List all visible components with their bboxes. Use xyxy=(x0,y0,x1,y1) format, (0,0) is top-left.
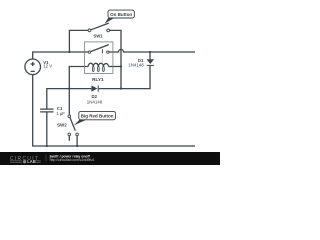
label SW2 xyxy=(57,123,67,128)
wire: C1 branch corner on mid rail xyxy=(47,89,70,110)
label D1 value xyxy=(128,58,144,68)
wire: bottom rail xyxy=(47,145,195,147)
wire: V1 top lead and top-left rail corner xyxy=(33,52,70,59)
footer text xyxy=(49,154,95,162)
wire: mid rail to D2 anode xyxy=(69,88,91,90)
capacitor C1 xyxy=(40,109,53,112)
label D2 value xyxy=(87,94,103,104)
diode D2 xyxy=(91,85,98,91)
svg-text:1N4148: 1N4148 xyxy=(128,62,144,67)
node: coil right tee xyxy=(120,65,122,67)
wire: contact rail out of relay, hop over SW1 branch, right stub xyxy=(109,49,195,52)
switch SW2 xyxy=(68,115,78,136)
label SW1 xyxy=(93,34,103,39)
wire: coil right lead to SW1 branch tee xyxy=(109,66,122,68)
coil arcs xyxy=(88,63,108,66)
wire: D1 top lead xyxy=(149,52,151,59)
diode D1 xyxy=(147,59,154,65)
svg-text:1N4148: 1N4148 xyxy=(87,99,103,104)
svg-text:RLY1: RLY1 xyxy=(92,77,104,82)
relay box xyxy=(85,42,113,74)
footer separator xyxy=(45,155,47,162)
annotation callout: Big Red Button xyxy=(74,111,116,125)
node: V1/SW1/contact junction xyxy=(68,51,70,53)
voltage source V1 xyxy=(25,59,41,75)
contact lever xyxy=(91,45,109,52)
coil crossover loops xyxy=(92,66,94,71)
svg-text:1 µF: 1 µF xyxy=(56,111,65,116)
node: SW2 bottom xyxy=(76,145,78,147)
svg-text:On Button: On Button xyxy=(110,12,132,17)
svg-text:Big Red Button: Big Red Button xyxy=(81,114,114,119)
contact left terminal xyxy=(88,51,90,53)
node: coil left / C1 / SW2 junction xyxy=(68,88,70,90)
wire: SW1 right branch down to coil net xyxy=(110,30,121,88)
actuation arrow xyxy=(101,49,103,52)
label C1 value xyxy=(56,106,65,116)
svg-text:SW2: SW2 xyxy=(57,123,67,128)
svg-text:12 V: 12 V xyxy=(43,64,52,69)
wire: SW2 right throw lead to bottom rail xyxy=(76,136,78,146)
svg-text:http://circuitlab.com/c2xkt9fu: http://circuitlab.com/c2xkt9fu4 xyxy=(50,158,95,162)
wire: SW2 top lead xyxy=(68,89,70,115)
annotation callout: On Button xyxy=(105,10,135,24)
node: C1 bottom xyxy=(46,145,48,147)
node: D1 top tee xyxy=(149,51,151,53)
footer logo CIRCUIT LAB xyxy=(10,156,41,164)
label V1 value xyxy=(43,60,52,69)
svg-text:LAB: LAB xyxy=(27,159,35,164)
label RLY1 xyxy=(92,77,104,82)
wire: contact rail into relay contact xyxy=(69,51,88,53)
wire: SW1 left branch xyxy=(69,30,88,52)
wire: mid rail from D2 cathode to D1 bottom corner xyxy=(99,66,150,89)
footer bar xyxy=(0,152,220,165)
svg-text:SW1: SW1 xyxy=(93,34,103,39)
contact right terminal xyxy=(107,51,109,53)
switch SW1 xyxy=(88,23,110,32)
wire: coil left lead down to mid rail junction xyxy=(69,67,88,89)
dashed link xyxy=(101,56,103,63)
wire: SW2 unused throw stub xyxy=(68,136,70,141)
node: SW1 branch bottom xyxy=(120,88,122,90)
wire: V1 bottom lead to bottom rail xyxy=(33,75,47,146)
wire: C1 bottom lead xyxy=(46,112,48,146)
relay RLY1 xyxy=(85,42,113,74)
junction dots xyxy=(46,51,151,147)
